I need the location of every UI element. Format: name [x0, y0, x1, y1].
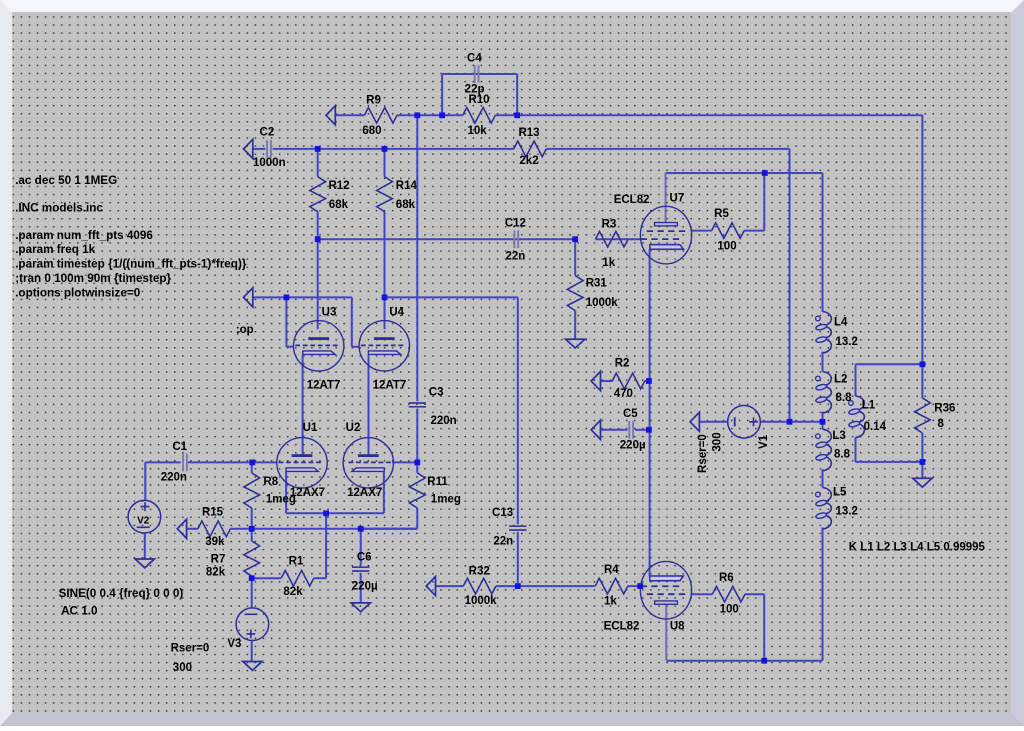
svg-text:L1: L1: [862, 399, 876, 411]
svg-text:13.2: 13.2: [836, 505, 858, 517]
wire U8 g2 to R6: [692, 593, 713, 595]
svg-text:R14: R14: [396, 180, 418, 192]
svg-text:R6: R6: [719, 572, 734, 584]
wire V2 to ground: [144, 533, 146, 559]
svg-text:R8: R8: [263, 476, 278, 488]
svg-text:82k: 82k: [283, 586, 303, 598]
svg-text:C2: C2: [260, 126, 275, 138]
resistor R6: [712, 586, 745, 602]
resistor R31: [567, 276, 583, 311]
svg-text:ECL82: ECL82: [614, 194, 650, 206]
input flag C2: [244, 139, 253, 158]
wire L4 to L2: [822, 352, 824, 372]
wire down to V1 node: [789, 149, 791, 422]
svg-text:R31: R31: [586, 277, 608, 289]
inductor L1: [856, 396, 865, 438]
triode U1 12AX7: [277, 438, 327, 488]
svg-text:1000k: 1000k: [586, 297, 619, 309]
voltage source V3: [236, 608, 269, 641]
node R6/U8 anode rail: [761, 658, 767, 664]
wire U8 anode to OPT bottom: [666, 660, 822, 662]
U3 cathode to U1 anode pin: [302, 355, 304, 454]
resistor R32: [463, 578, 496, 594]
resistor R14: [377, 177, 393, 212]
resistor R2: [612, 373, 645, 389]
resistor R7: [244, 541, 260, 576]
wire arrow to R9: [335, 114, 364, 116]
wire R7 top: [251, 529, 253, 541]
svg-text:U3: U3: [322, 306, 337, 318]
svg-text:22n: 22n: [505, 251, 525, 263]
wire U4 anode node to C13 column: [385, 296, 518, 298]
wire R7 bottom: [251, 576, 253, 578]
wire R9 to R10: [397, 114, 463, 116]
wire C4 left drop: [441, 74, 443, 115]
svg-text:.ac dec 50 1 1MEG: .ac dec 50 1 1MEG: [15, 174, 117, 187]
wire R5 right: [744, 230, 764, 232]
wire down to L4: [822, 173, 824, 312]
svg-text:.param timestep {1/((num_fft_p: .param timestep {1/((num_fft_pts-1)*freq…: [15, 257, 247, 270]
svg-text:V2: V2: [137, 516, 150, 527]
wire arrow to R2: [601, 380, 613, 382]
ground under C6: [351, 603, 370, 612]
svg-text:.options plotwinsize=0: .options plotwinsize=0: [15, 287, 141, 300]
node V1/R13 column: [787, 419, 793, 425]
resistor R5: [712, 223, 745, 239]
svg-text:R13: R13: [518, 127, 539, 139]
svg-text:U4: U4: [389, 306, 404, 318]
wire V1 to OPT center tap: [760, 421, 822, 423]
svg-text:68k: 68k: [329, 199, 349, 211]
wire down to V2: [144, 462, 146, 500]
U2 cathode lead: [383, 472, 385, 514]
wire C2 to R13: [273, 148, 514, 150]
pentode U8 ECL82: [640, 561, 691, 619]
wire R9 node down to C3: [416, 115, 418, 401]
svg-text:100: 100: [720, 604, 739, 616]
node U8 grid: [637, 583, 643, 589]
node U3 grid tap: [284, 295, 290, 301]
U4 anode pin: [384, 297, 386, 329]
svg-text:300: 300: [173, 662, 192, 674]
node C4 right: [514, 112, 520, 118]
wire R5 up to anode node: [763, 173, 765, 231]
svg-text:V3: V3: [227, 638, 241, 650]
ground under R36: [913, 478, 932, 487]
wire R8 bottom: [251, 508, 253, 529]
node R14/U4 anode/C13: [382, 295, 388, 301]
wire V3 to ground: [251, 641, 253, 662]
node L1/R36 bottom/ground: [920, 459, 926, 465]
svg-text:K L1 L2 L3 L4 L5 0.99995: K L1 L2 L3 L4 L5 0.99995: [849, 542, 986, 554]
voltage source V2: [128, 500, 161, 533]
svg-text:R3: R3: [602, 219, 617, 231]
svg-text:C13: C13: [492, 507, 513, 519]
U3 anode pin: [317, 239, 319, 329]
resistor R13: [514, 141, 547, 157]
svg-text:1k: 1k: [604, 596, 617, 608]
wire U7 cathode down to U8: [649, 249, 651, 576]
svg-text:;op: ;op: [236, 324, 254, 336]
wire down to U3 grid: [285, 297, 287, 346]
wire C13 to R32/R4 node: [517, 532, 519, 586]
svg-text:U2: U2: [346, 422, 361, 434]
svg-text:220n: 220n: [431, 415, 457, 427]
wire C4 top: [442, 73, 517, 75]
svg-text:V1: V1: [758, 434, 770, 449]
svg-text:8.8: 8.8: [834, 448, 851, 460]
svg-text:R10: R10: [468, 94, 489, 106]
wire C6 top: [360, 529, 362, 566]
wire U7 g2 to R5: [691, 230, 712, 232]
capacitor C13: [509, 525, 526, 527]
wire OPT bottom up to L5: [822, 528, 824, 661]
svg-text:C12: C12: [505, 218, 526, 230]
wire L2 to L3 through tap: [822, 412, 824, 430]
resistor R8: [244, 473, 260, 508]
cathode rail: [286, 512, 384, 514]
wire C3 to U2 grid node: [416, 409, 418, 463]
svg-text:Rser=0: Rser=0: [697, 434, 709, 473]
wire C13 column down: [517, 297, 519, 524]
wire R11 bottom: [416, 508, 418, 529]
wire L3 to L5: [822, 469, 824, 487]
svg-text:1000k: 1000k: [465, 595, 498, 607]
wire R14 bottom to U4 anode node: [384, 212, 386, 298]
svg-text:R5: R5: [714, 208, 729, 220]
svg-text:L2: L2: [834, 373, 847, 385]
wire U2 grid to R11 node: [392, 461, 417, 463]
inductor L5: [823, 488, 832, 530]
capacitor C2: [266, 140, 268, 158]
wire R32 to R4: [496, 585, 595, 587]
svg-text:ECL82: ECL82: [604, 620, 640, 632]
node cathode rail/R1: [323, 510, 329, 516]
svg-text:R15: R15: [202, 507, 224, 519]
capacitor C6: [352, 566, 369, 568]
svg-text:R36: R36: [934, 402, 955, 414]
svg-text:12AX7: 12AX7: [347, 487, 382, 499]
wire arrow to R32: [436, 585, 464, 587]
svg-text:10k: 10k: [468, 125, 488, 137]
svg-text:U8: U8: [670, 621, 685, 633]
inductor L2: [823, 372, 832, 414]
wire R11 top stub: [416, 462, 418, 473]
svg-text:L4: L4: [834, 317, 848, 329]
svg-text:R32: R32: [469, 566, 490, 578]
wire R12 bottom to C12/R3 node: [318, 238, 576, 240]
node R15/R8/R7: [249, 526, 255, 532]
capacitor C5: [628, 421, 630, 439]
svg-text:470: 470: [614, 388, 633, 400]
svg-text:L3: L3: [832, 430, 845, 442]
flag V1: [690, 412, 699, 431]
ground under R31: [566, 339, 585, 348]
svg-text:R12: R12: [329, 180, 350, 192]
wire R4 to U8 grid: [628, 585, 640, 587]
node U2 grid/R11/C3: [414, 460, 420, 466]
svg-text:R9: R9: [366, 95, 381, 107]
input flag to U3/U4 grids: [244, 288, 253, 307]
flag R2: [591, 371, 600, 390]
svg-text:R4: R4: [604, 564, 619, 576]
flag R15: [177, 519, 186, 538]
node C6 top: [358, 526, 364, 532]
pentode U7 ECL82: [640, 206, 691, 264]
svg-text:13.2: 13.2: [836, 336, 858, 348]
wire into U3 grid: [286, 346, 293, 348]
svg-text:U1: U1: [303, 422, 318, 434]
svg-text:L5: L5: [833, 487, 847, 499]
svg-text:C4: C4: [467, 53, 482, 65]
resistor R10: [463, 108, 496, 124]
wire R6 down: [763, 594, 765, 661]
wire R11 corner to C6 node: [361, 528, 418, 530]
svg-text:12AT7: 12AT7: [373, 379, 407, 391]
wire R1 right: [314, 577, 326, 579]
svg-text:R7: R7: [211, 554, 226, 566]
wire L1 top lead: [855, 364, 857, 396]
svg-text:Rser=0: Rser=0: [171, 643, 210, 655]
svg-text:SINE(0 0.4 {freq} 0 0 0): SINE(0 0.4 {freq} 0 0 0): [59, 587, 184, 600]
svg-text:680: 680: [362, 125, 381, 137]
wire L1 bottom: [856, 461, 923, 463]
svg-text:R1: R1: [289, 556, 304, 568]
svg-text:C1: C1: [172, 441, 187, 453]
node R32/C13/R4: [515, 583, 521, 589]
wire R6 right: [745, 593, 764, 595]
flag R9: [326, 106, 335, 125]
wire R7/V3 node to R1: [252, 577, 282, 579]
svg-text:R2: R2: [615, 357, 630, 369]
U4 cathode to U2 anode pin: [368, 355, 370, 454]
wire arrow to C2: [253, 148, 266, 150]
wire arrow to R15: [187, 528, 198, 530]
svg-text:68k: 68k: [396, 199, 416, 211]
wire arrow to C5: [601, 429, 628, 431]
svg-text:C6: C6: [357, 552, 372, 564]
triode U2 12AX7: [343, 438, 393, 488]
svg-text:8: 8: [938, 418, 945, 430]
U1 cathode lead: [285, 472, 287, 514]
wire C5 to node: [635, 429, 650, 431]
wire into U4 grid: [352, 346, 359, 348]
svg-text:8.8: 8.8: [836, 392, 853, 404]
svg-text:R11: R11: [427, 476, 448, 488]
svg-text:1000n: 1000n: [253, 157, 286, 169]
wire down to V3: [251, 578, 253, 608]
capacitor C12: [513, 230, 515, 248]
U8 anode pin inner: [665, 604, 667, 660]
node C12/R3/R31: [572, 236, 578, 242]
wire R36 bottom: [921, 433, 923, 462]
svg-text:1k: 1k: [602, 257, 615, 269]
svg-text:.INC models.inc: .INC models.inc: [15, 201, 103, 214]
resistor R4: [595, 578, 628, 594]
wire arrow to V1: [699, 421, 727, 423]
wire R3 to U7 grid: [596, 238, 642, 240]
triode U3 12AT7: [294, 321, 344, 371]
wire C4 right drop: [516, 74, 518, 115]
wire R36 top: [921, 364, 923, 398]
ground under V3: [243, 662, 262, 671]
svg-text:220µ: 220µ: [352, 581, 378, 593]
svg-text:220µ: 220µ: [620, 440, 646, 452]
svg-text:1meg: 1meg: [266, 493, 296, 505]
svg-text:0.14: 0.14: [864, 421, 887, 433]
wire C1 to U1 grid: [188, 461, 277, 463]
node C5/U7 cathode: [646, 427, 652, 433]
wire right column down to L1/R36: [921, 115, 923, 364]
node U7 anode/R5: [762, 170, 768, 176]
svg-text:.param freq 1k: .param freq 1k: [15, 243, 95, 256]
node L1/R36 top: [920, 361, 926, 367]
capacitor C3: [409, 402, 426, 404]
capacitor C4: [474, 65, 476, 83]
wire L1 top: [856, 363, 923, 365]
wire rail down to R1: [325, 513, 327, 578]
resistor R36: [915, 398, 931, 433]
capacitor C1: [182, 454, 184, 472]
U7 anode pin: [665, 173, 667, 223]
resistor R12: [310, 177, 326, 212]
resistor R15: [198, 521, 231, 537]
wire node down to R31: [574, 239, 576, 275]
inductor L3: [823, 429, 832, 471]
resistor R9: [364, 108, 397, 124]
wire R10 to right column: [495, 114, 922, 116]
wire V2 corner to C1: [145, 461, 180, 463]
wire R12 top: [317, 149, 319, 177]
wire R13 right: [546, 148, 789, 150]
wire U7 anode to OPT column: [666, 172, 823, 174]
resistor R3: [596, 231, 629, 247]
node R12/C12: [315, 236, 321, 242]
svg-text:22p: 22p: [465, 83, 485, 95]
node R2/U7 cathode: [646, 378, 652, 384]
wire L1 bottom lead: [855, 438, 857, 462]
svg-text:22n: 22n: [493, 535, 513, 547]
svg-text:C3: C3: [429, 387, 444, 399]
svg-text:12AT7: 12AT7: [307, 379, 341, 391]
wire R8 top: [251, 462, 253, 473]
node C1/R8/U1 grid: [249, 460, 255, 466]
svg-text:;tran 0 100m 90m {timestep}: ;tran 0 100m 90m {timestep}: [15, 272, 171, 285]
inductor L4: [823, 312, 832, 354]
node R14 top: [382, 146, 388, 152]
wire R31 to ground: [574, 311, 576, 340]
ground under V2: [135, 559, 154, 568]
svg-text:220n: 220n: [161, 471, 187, 483]
svg-text:C5: C5: [623, 408, 638, 420]
wire R12 bottom: [317, 212, 319, 240]
wire R14 top: [384, 149, 386, 177]
svg-text:U7: U7: [670, 192, 685, 204]
svg-text:.param num_fft_pts 4096: .param num_fft_pts 4096: [15, 229, 153, 242]
node R9/C4/feedback: [414, 112, 420, 118]
node OPT center tap: [820, 419, 826, 425]
svg-text:100: 100: [717, 240, 736, 252]
flag R32: [426, 577, 435, 596]
node R7/R1/V3: [249, 575, 255, 581]
svg-text:1meg: 1meg: [431, 493, 461, 505]
svg-text:39k: 39k: [205, 536, 225, 548]
wire R36 to ground: [921, 462, 923, 478]
wire R15 to R11 corner: [230, 528, 417, 530]
resistor R1: [281, 570, 314, 586]
wire input arrow to U4 grid corner: [253, 296, 352, 298]
node C4 left: [439, 112, 445, 118]
svg-text:AC 1.0: AC 1.0: [61, 604, 98, 617]
svg-text:300: 300: [712, 432, 724, 451]
wire down to U4 grid: [351, 297, 353, 346]
voltage source V1: [728, 406, 761, 439]
node R12 top: [315, 146, 321, 152]
resistor R11: [409, 473, 425, 508]
triode U4 12AT7: [359, 321, 409, 371]
wire C6 to ground: [360, 573, 362, 603]
svg-text:82k: 82k: [206, 566, 226, 578]
wire R2 to node: [645, 380, 650, 382]
flag C5: [591, 420, 600, 439]
svg-text:2k2: 2k2: [519, 155, 538, 167]
